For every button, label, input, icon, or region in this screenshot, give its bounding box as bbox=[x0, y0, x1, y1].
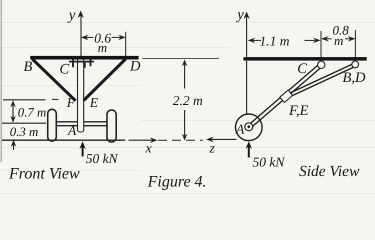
svg-text:x: x bbox=[145, 141, 153, 156]
svg-text:1.1 m: 1.1 m bbox=[260, 34, 290, 49]
svg-text:E: E bbox=[89, 95, 99, 110]
svg-text:50 kN: 50 kN bbox=[253, 155, 286, 170]
svg-text:B,D: B,D bbox=[343, 70, 366, 86]
svg-text:50 kN: 50 kN bbox=[86, 151, 119, 166]
svg-text:F,E: F,E bbox=[288, 103, 309, 119]
svg-text:m: m bbox=[334, 33, 343, 48]
svg-text:2.2 m: 2.2 m bbox=[173, 93, 203, 108]
svg-text:y: y bbox=[67, 7, 76, 23]
svg-text:Side View: Side View bbox=[299, 163, 360, 180]
svg-text:0.7 m: 0.7 m bbox=[18, 105, 46, 119]
svg-text:F: F bbox=[66, 95, 76, 110]
svg-text:Figure 4.: Figure 4. bbox=[147, 173, 207, 190]
svg-text:A: A bbox=[235, 122, 245, 137]
svg-text:z: z bbox=[209, 142, 216, 157]
svg-text:C: C bbox=[297, 61, 307, 77]
svg-text:B: B bbox=[24, 59, 33, 75]
svg-text:C: C bbox=[60, 61, 70, 77]
svg-text:D: D bbox=[129, 58, 141, 74]
svg-text:y: y bbox=[235, 7, 244, 23]
svg-text:m: m bbox=[98, 40, 107, 55]
svg-text:Front View: Front View bbox=[8, 165, 80, 182]
svg-text:A: A bbox=[67, 123, 77, 138]
svg-text:0.3 m: 0.3 m bbox=[10, 125, 38, 139]
